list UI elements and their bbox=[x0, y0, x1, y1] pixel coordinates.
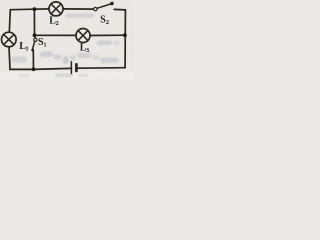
label L1 bbox=[19, 41, 28, 53]
wire S1 to bottom junction bbox=[32, 51, 34, 70]
wire S2 to top-right corner bbox=[114, 8, 125, 11]
paper background bbox=[0, 0, 134, 79]
wire top-left corner to L2 (top wire left part) bbox=[10, 8, 49, 11]
svg-text:1: 1 bbox=[25, 45, 28, 52]
label L2 bbox=[49, 15, 59, 27]
faint ghost marks (bleed-through) bbox=[11, 14, 120, 78]
wire right vertical bbox=[124, 10, 126, 68]
label L3 bbox=[80, 42, 90, 54]
junction dot right bbox=[123, 33, 127, 37]
junction dot top (node above S1 branch) bbox=[33, 7, 37, 11]
lamp L3 bbox=[76, 29, 90, 43]
switch S2 bbox=[94, 4, 112, 11]
svg-text:2: 2 bbox=[56, 20, 59, 27]
label S1 bbox=[38, 37, 47, 49]
wire stub junction to S1 bbox=[34, 35, 37, 38]
switch S1 blade tip dot bbox=[31, 49, 34, 52]
wire left vertical lower (L1 to bottom corner) bbox=[9, 47, 10, 70]
switch S2 blade tip dot bbox=[110, 2, 113, 5]
label S2 bbox=[100, 14, 109, 26]
wire bottom left (corner to battery) bbox=[10, 68, 71, 69]
wire node to L3 bbox=[35, 34, 77, 36]
lamp L1 bbox=[2, 32, 17, 47]
lamp L2 bbox=[49, 2, 63, 16]
svg-text:2: 2 bbox=[106, 19, 109, 26]
wire left vertical upper (corner to L1) bbox=[9, 10, 10, 33]
battery cell bbox=[71, 62, 76, 74]
wire L2 to switch S2 bbox=[63, 8, 94, 10]
junction dot bottom bbox=[32, 67, 36, 71]
wire bottom right (battery to right corner) bbox=[78, 67, 125, 70]
switch S1 bbox=[32, 38, 37, 49]
junction dot middle node bbox=[33, 33, 37, 37]
wire middle branch vertical (top junction down to node) bbox=[33, 9, 35, 35]
wire L3 to right junction bbox=[90, 34, 125, 36]
svg-text:1: 1 bbox=[44, 43, 47, 49]
